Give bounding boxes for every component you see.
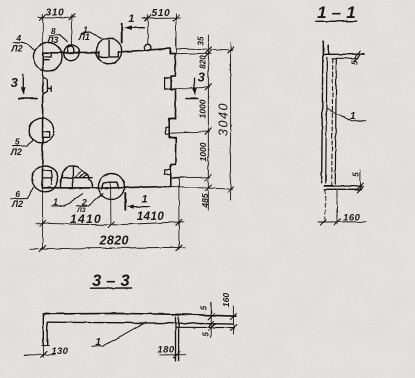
svg-text:5: 5 [351, 60, 360, 65]
dim 180 [160, 354, 186, 356]
svg-text:2820: 2820 [98, 234, 128, 248]
bottom rib П in circle 2 [102, 182, 119, 189]
right chain ticks [205, 47, 211, 191]
extension lines 310 [43, 14, 72, 52]
right edge clip 2 [165, 127, 169, 134]
top flange [323, 54, 364, 57]
svg-text:1000: 1000 [198, 99, 208, 118]
label 6/Л2 underline and leader [11, 188, 33, 199]
svg-text:1: 1 [141, 193, 147, 205]
section mark 1 bottom: arrow [131, 206, 150, 208]
svg-text:Л2: Л2 [11, 199, 23, 209]
svg-text:3: 3 [198, 70, 206, 85]
rib stubs top [323, 41, 328, 54]
svg-text:1410: 1410 [70, 212, 102, 226]
svg-text:160: 160 [343, 212, 361, 223]
tick [40, 14, 75, 20]
left edge notch at section 3 [43, 77, 51, 94]
extension: rib cap [171, 176, 210, 178]
hat channel dip in circle Л1 [99, 52, 118, 57]
plate top line [43, 313, 236, 316]
dim line 510 [143, 17, 181, 19]
svg-text:310: 310 [46, 8, 65, 19]
svg-text:130: 130 [51, 346, 68, 357]
right leg [176, 317, 179, 362]
svg-text:5: 5 [15, 136, 20, 146]
rib cap bottom right [171, 177, 183, 179]
detail circle C1 4/Л2 [33, 43, 62, 72]
dim 130 [24, 354, 55, 356]
svg-text:3040: 3040 [217, 102, 231, 136]
title underline 3-3 [90, 287, 131, 289]
section mark 3 right: arrow [194, 78, 196, 90]
svg-text:Л3: Л3 [46, 35, 58, 45]
detail circle C5 5/Л2 [29, 118, 54, 143]
svg-text:Л2: Л2 [10, 44, 22, 54]
svg-text:510: 510 [152, 8, 171, 19]
title underline 1-1 [316, 20, 357, 22]
left leg [43, 314, 47, 346]
svg-text:1 – 1: 1 – 1 [317, 3, 356, 22]
extension: top edge to chains [176, 48, 233, 50]
svg-text:4: 4 [15, 33, 21, 43]
label 1 dome underline and leader [52, 193, 83, 206]
left leg extension [43, 346, 45, 358]
detail circle Л1 [96, 38, 122, 64]
svg-text:1000: 1000 [198, 142, 208, 161]
svg-text:1: 1 [350, 111, 356, 122]
svg-text:1: 1 [128, 13, 134, 25]
label 1/Л1 underline and leader [81, 32, 102, 39]
svg-text:Л1: Л1 [78, 32, 90, 42]
ticks 5 top [354, 51, 360, 61]
svg-text:1: 1 [53, 197, 58, 207]
detail circle C2 2/Л3 [98, 174, 124, 200]
extension right down [178, 178, 180, 250]
extension left edge down [42, 188, 44, 250]
bottom flange [324, 186, 361, 189]
svg-text:2: 2 [81, 197, 87, 207]
top edge [43, 48, 171, 53]
extension: bottom edge to chains [171, 186, 233, 189]
label 2/Л3 underline and leader [76, 194, 103, 207]
right dim 160 line [232, 306, 234, 334]
ticks 510 [145, 15, 179, 21]
left edge tab detail in circle 6 [43, 171, 51, 185]
svg-text:1410: 1410 [137, 211, 165, 223]
svg-text:485: 485 [200, 193, 210, 208]
hatch in dome [76, 171, 88, 177]
section mark 3 left: arrow [22, 75, 24, 91]
svg-text:820: 820 [199, 55, 208, 69]
overall dim line 3040 [230, 43, 232, 200]
section mark 3 right: bar [186, 97, 198, 99]
section mark 1 top: bar [121, 24, 123, 43]
label 8/Л3 underline and leader [50, 35, 68, 42]
extension: rebate [175, 52, 211, 54]
label 4/Л2 underline and leader [13, 42, 34, 49]
svg-text:3: 3 [11, 75, 19, 90]
label 5/Л2 underline and leader [13, 140, 34, 146]
right edge with rib notches [169, 48, 176, 186]
dim line 160 [318, 221, 366, 223]
bottom extensions [324, 190, 326, 223]
right dim 5/5 line [210, 303, 212, 338]
svg-text:6: 6 [15, 189, 20, 199]
ticks 2820 [40, 245, 182, 252]
svg-text:35: 35 [197, 36, 206, 45]
dim line 1410+1410 [36, 222, 184, 225]
top-left corner rebate detail [43, 53, 51, 61]
dim 5 bottom [359, 170, 361, 190]
section mark 1 bottom: bar [124, 193, 126, 210]
section mark 3 left: bar [19, 97, 37, 99]
dome detail with cross and hatch [60, 166, 93, 188]
detail circle C8 8/Л3 [64, 45, 79, 60]
svg-text:Л2: Л2 [10, 147, 22, 157]
svg-text:180: 180 [157, 344, 175, 355]
web lines [322, 57, 323, 184]
top rib П in circle 8 [66, 46, 75, 52]
extension: notch 2 [169, 131, 210, 133]
left edge [41, 53, 43, 188]
dim line 2820 [30, 247, 185, 249]
leader 1 [327, 109, 367, 121]
svg-text:1: 1 [95, 337, 101, 348]
extension: notch 1 [169, 87, 210, 89]
extension rib stem down [110, 182, 112, 224]
plate bottom line [47, 322, 233, 324]
right edge clip 3 [165, 169, 171, 174]
section mark 1 top: arrow [128, 27, 144, 29]
leader 1 section 3-3 [92, 322, 146, 346]
svg-text:3 – 3: 3 – 3 [92, 272, 130, 290]
svg-text:5: 5 [201, 332, 210, 337]
right edge clip 1 [165, 78, 171, 90]
detail circle C6 6/Л2 [32, 166, 58, 192]
extension lines 510 [148, 14, 176, 54]
ticks [40, 219, 182, 228]
web stem in circle Л1 [108, 40, 110, 57]
top rib П at 510 [143, 44, 152, 50]
lower right line [176, 326, 234, 328]
svg-text:5: 5 [351, 172, 360, 177]
dim line 310 [39, 16, 76, 18]
bottom edge [42, 186, 170, 188]
svg-text:5: 5 [199, 305, 208, 310]
left edge clip detail in circle 5 [43, 132, 49, 138]
right chain dim line [207, 35, 209, 211]
overall ticks [228, 47, 234, 192]
svg-text:160: 160 [221, 293, 231, 307]
